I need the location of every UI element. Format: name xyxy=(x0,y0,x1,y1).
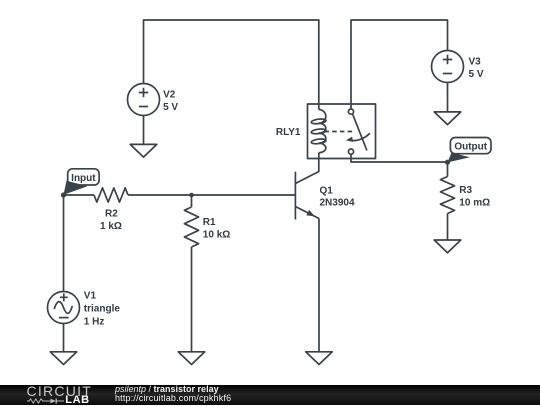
resistor R1 xyxy=(191,195,193,207)
svg-text:triangle: triangle xyxy=(84,304,121,315)
svg-text:5 V: 5 V xyxy=(163,102,178,113)
svg-text:2N3904: 2N3904 xyxy=(320,197,355,208)
svg-text:10 mΩ: 10 mΩ xyxy=(459,198,490,209)
relay arm motion arrow xyxy=(349,133,370,140)
svg-text:1 Hz: 1 Hz xyxy=(84,317,105,328)
footer bar xyxy=(0,385,540,406)
wire relay switch top contact to V3 xyxy=(351,20,448,109)
ground below V1 xyxy=(50,352,77,365)
svg-text:5 V: 5 V xyxy=(469,69,484,80)
wire V1 bottom xyxy=(63,324,65,352)
svg-text:Output: Output xyxy=(454,142,487,153)
relay switch arm xyxy=(353,114,367,150)
credit text xyxy=(115,385,231,404)
transistor Q1 2N3904 xyxy=(294,172,296,220)
ground below R1 xyxy=(178,352,205,365)
svg-text:V2: V2 xyxy=(163,89,176,100)
svg-text:10 kΩ: 10 kΩ xyxy=(203,229,230,240)
wire Q1 emitter to ground xyxy=(318,219,320,352)
resistor R3 xyxy=(447,162,449,177)
svg-text:Q1: Q1 xyxy=(320,185,334,196)
wire V3 bottom xyxy=(447,83,449,112)
flag Output xyxy=(448,153,471,163)
ground below R3 xyxy=(434,240,461,253)
wire base rail right segment xyxy=(128,194,295,196)
resistor R2 xyxy=(94,188,128,202)
wire coil bottom to Q1 collector xyxy=(295,153,318,184)
relay bottom contact pin xyxy=(348,149,353,154)
wire V2 bottom xyxy=(143,116,145,145)
svg-text:R2: R2 xyxy=(105,209,118,220)
relay dashed link xyxy=(325,131,353,133)
svg-text:1 kΩ: 1 kΩ xyxy=(100,221,122,232)
svg-text:R1: R1 xyxy=(203,217,216,228)
wire base rail left segment xyxy=(64,194,95,196)
node junction R1/base xyxy=(189,193,194,198)
ground below Q1 emitter xyxy=(306,352,333,365)
ground below V3 xyxy=(434,112,461,125)
svg-text:R3: R3 xyxy=(459,185,472,196)
ground below V2 xyxy=(130,144,157,157)
wire relay bottom contact to output node xyxy=(351,154,448,162)
svg-text:V1: V1 xyxy=(84,291,97,302)
CircuitLab logo xyxy=(27,385,107,406)
wire V1 top xyxy=(63,195,65,292)
voltage source V3 xyxy=(432,51,464,83)
svg-text:Input: Input xyxy=(71,173,96,184)
svg-text:RLY1: RLY1 xyxy=(276,127,301,138)
voltage source V1 (triangle 1 Hz) xyxy=(48,292,80,324)
flag Input xyxy=(64,181,88,195)
voltage source V2 xyxy=(128,84,160,116)
node output xyxy=(445,160,450,165)
relay RLY1 box xyxy=(308,104,376,159)
svg-text:V3: V3 xyxy=(469,57,482,68)
relay coil xyxy=(319,110,326,153)
relay top contact pin xyxy=(348,109,353,114)
wire V2 top to relay coil xyxy=(144,20,319,110)
